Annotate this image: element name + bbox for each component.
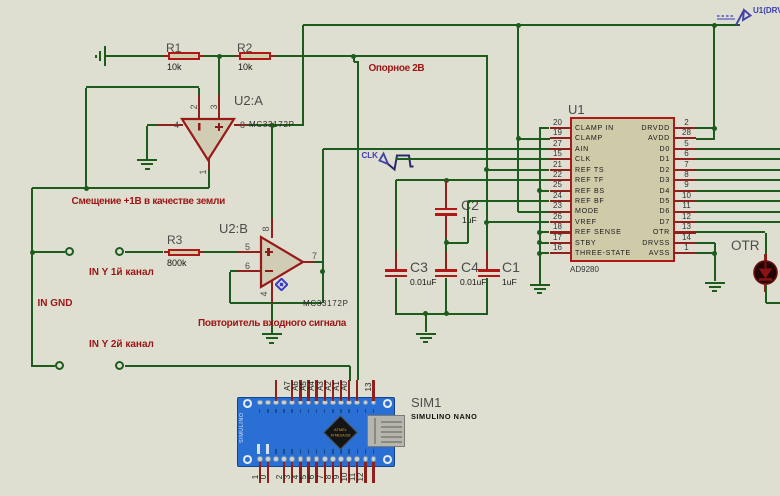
- pin stub nano bottom 11: [348, 462, 350, 483]
- pin name mark: [267, 449, 269, 454]
- pin name AVSS: [592, 249, 670, 257]
- pin label D2: [270, 468, 288, 486]
- pin 21 REF TS (left stub): [550, 169, 571, 171]
- value U2:B MC33172P: [303, 299, 349, 308]
- wire U2:A pin2 vertical green: [198, 88, 200, 108]
- terminal IN Y 2 (left circle): [55, 361, 64, 370]
- pin name REF BS: [575, 187, 605, 195]
- wire C3 top lead red: [395, 251, 397, 271]
- wire opornoe jog v: [353, 56, 355, 62]
- pin stub nano top 5: [299, 380, 301, 401]
- junction top rail / DRVDD drop: [712, 23, 717, 28]
- ground (chip right): [705, 282, 725, 284]
- pin name REF TF: [575, 176, 604, 184]
- pin name mark: [373, 409, 375, 414]
- pad (top row): [306, 400, 312, 406]
- junction rail/C4: [444, 311, 449, 316]
- junction REF BS: [537, 188, 542, 193]
- wire R1-R2: [204, 55, 236, 57]
- generator CLK (clock source): [362, 151, 378, 160]
- resistor R2 10k: [239, 52, 271, 60]
- pin name mark: [275, 449, 277, 454]
- pin 15 CLK (left stub): [550, 158, 571, 160]
- junction top rail x518: [516, 23, 521, 28]
- pin name mark: [316, 409, 318, 414]
- wire CLAMP IN to pin20: [540, 127, 550, 129]
- pin stub nano top 8: [324, 380, 326, 401]
- wire data D1: [696, 158, 780, 160]
- pin label A0: [335, 377, 353, 395]
- mounting hole: [383, 399, 392, 408]
- pin name D6: [592, 207, 670, 215]
- label OTR: [731, 238, 760, 253]
- pad (bottom row): [257, 456, 263, 462]
- pin label D8: [319, 468, 337, 486]
- wire pin4 down to ground: [146, 126, 148, 159]
- pin name STBY: [575, 239, 596, 247]
- junction feedback B: [320, 269, 325, 274]
- pin name mark: [283, 409, 285, 414]
- value C4 0.01uF: [460, 277, 486, 287]
- pin stub nano top 6: [307, 380, 309, 401]
- text SIMULINO NANO: [411, 412, 477, 421]
- pin 20 CLAMP IN (left stub): [550, 127, 571, 129]
- pin stub nano top 14: [372, 380, 374, 401]
- wire data D6: [696, 211, 780, 213]
- pin label A7: [278, 377, 296, 395]
- pin name D7: [592, 218, 670, 226]
- wire C2 bottom green: [445, 238, 447, 243]
- junction VREF: [484, 220, 489, 225]
- ground (left, rotated): [104, 46, 106, 66]
- pad (top row): [346, 400, 352, 406]
- wire DRVSS/AVSS vertical: [714, 243, 716, 282]
- MCU (black diamond): [323, 415, 358, 450]
- pin name mark: [357, 409, 359, 414]
- pin name VREF: [575, 218, 597, 226]
- wire AVDD: [696, 138, 714, 140]
- pin number 4 U2:B: [255, 285, 273, 303]
- label C4: [461, 259, 479, 275]
- junction AVSS: [712, 251, 717, 256]
- pin name MODE: [575, 207, 599, 215]
- pin stub nano bottom 14: [372, 462, 374, 483]
- pin name REF SENSE: [575, 228, 622, 236]
- pin label A6: [286, 377, 304, 395]
- wire main rail y56: [275, 55, 488, 57]
- minus mark U2:B: [265, 270, 273, 272]
- wire DRVSS: [696, 242, 715, 244]
- wire LED to edge: [766, 302, 780, 304]
- wire ground net vertical x540: [539, 127, 541, 284]
- pin 13 OTR (right stub): [674, 231, 696, 233]
- pin name mark: [316, 449, 318, 454]
- silkscreen text left edge: [239, 412, 245, 443]
- capacitor C1 1uF: [478, 269, 500, 272]
- pin 11 D6 (right stub): [674, 211, 696, 213]
- wire R3 right lead: [200, 251, 204, 253]
- wire feedback B vertical: [229, 272, 231, 304]
- USB connector: [367, 415, 405, 447]
- pin number 8 U2:B: [257, 220, 275, 238]
- terminal IN Y 1 (right circle): [115, 247, 124, 256]
- resistor R1 10k: [168, 52, 200, 60]
- pin label A1: [327, 377, 345, 395]
- pin name mark: [324, 449, 326, 454]
- pin name mark: [365, 409, 367, 414]
- wire to terminal ch1: [32, 251, 65, 253]
- wire data D4: [696, 190, 780, 192]
- module SIM1 SIMULINO NANO board: [237, 397, 395, 467]
- pad (top row): [338, 400, 344, 406]
- wire terminal to R3: [125, 251, 164, 253]
- marker (blue origin): [275, 278, 288, 291]
- wire U2:A pin3 vertical green: [218, 56, 220, 95]
- pad (bottom row): [354, 456, 360, 462]
- pin name CLK: [575, 155, 591, 163]
- capacitor C2 bottom lead: [445, 216, 447, 238]
- junction node R1/R2/pin3: [217, 54, 222, 59]
- wire down to nano A0: [349, 366, 351, 381]
- pin 22 REF TF (left stub): [550, 179, 571, 181]
- pin stub nano bottom 10: [340, 462, 342, 483]
- label R2: [237, 41, 252, 55]
- wire U2:B out vertical (AIN/feedback): [322, 149, 324, 303]
- pin name mark: [291, 449, 293, 454]
- pin 2 DRVDD (right stub): [674, 127, 696, 129]
- junction THREE-STATE: [537, 251, 542, 256]
- value R1 10k: [167, 62, 182, 72]
- pin 25 REF BS (left stub): [550, 190, 571, 192]
- wire LED bottom: [765, 285, 767, 304]
- wire C4 top green: [445, 243, 447, 252]
- silkscreen TX RX marks: [257, 444, 260, 454]
- wire +V down to U2:B pin8: [271, 126, 273, 218]
- pad (bottom row): [371, 456, 377, 462]
- pin name mark: [308, 409, 310, 414]
- pin 5 D0 (right stub): [674, 148, 696, 150]
- ground (cap rail): [416, 333, 436, 335]
- junction CLAMP: [516, 136, 521, 141]
- mounting hole: [383, 455, 392, 464]
- pin name mark: [300, 409, 302, 414]
- svg-text:ATMEL: ATMEL: [333, 427, 347, 432]
- terminal IN Y 2 (right circle): [115, 361, 124, 370]
- wire IN GND vertical: [31, 188, 33, 367]
- mounting hole: [243, 455, 252, 464]
- wire opornoe jog h: [354, 61, 359, 63]
- label U2:A: [234, 93, 263, 108]
- capacitor C1 top lead red: [486, 251, 488, 270]
- pin 6 D1 (right stub): [674, 158, 696, 160]
- label U2:B: [219, 221, 248, 236]
- junction C2 top: [444, 178, 449, 183]
- label C3: [410, 259, 428, 275]
- wire REF BF: [468, 200, 550, 202]
- pin label D10: [335, 468, 353, 486]
- wire pin6 green: [230, 270, 238, 272]
- pin 7 stub U2:B: [302, 261, 313, 263]
- pin label D11: [343, 468, 361, 486]
- pin name CLAMP IN: [575, 124, 614, 132]
- pad (bottom row): [330, 456, 336, 462]
- pad (bottom row): [298, 456, 304, 462]
- pin name mark: [259, 449, 261, 454]
- wire output bottom: [32, 187, 209, 189]
- pin stub nano bottom 1: [267, 462, 269, 483]
- pin stub nano top 7: [315, 380, 317, 401]
- pad (bottom row): [338, 456, 344, 462]
- pad (bottom row): [289, 456, 295, 462]
- label C2: [461, 197, 479, 213]
- wire C3 bottom lead: [395, 278, 397, 315]
- pin label D4: [286, 468, 304, 486]
- wire U2:A output vertical: [208, 170, 210, 188]
- junction REF TS: [484, 167, 489, 172]
- pin 4 stub U2:B: [271, 280, 273, 303]
- ground (chip left): [530, 284, 550, 286]
- pin 8 stub U2:A: [234, 124, 248, 126]
- label R1: [166, 41, 181, 55]
- pin 7 D2 (right stub): [674, 169, 696, 171]
- probe U1(DRVDD) voltage probe: [712, 4, 758, 28]
- pin 28 AVDD (right stub): [674, 137, 696, 139]
- junction op-amp supplies: [270, 123, 275, 128]
- value U1 AD9280: [570, 265, 599, 274]
- capacitor C2 top lead: [445, 181, 447, 210]
- wire C2 to REFBF riser: [446, 242, 468, 244]
- pad (top row): [322, 400, 328, 406]
- pin label A4: [302, 377, 320, 395]
- pin stub nano bottom 7: [315, 462, 317, 483]
- junction C2/C4: [444, 240, 449, 245]
- pin name D3: [592, 176, 670, 184]
- capacitor C2 1uF: [435, 208, 457, 211]
- pin name D0: [592, 145, 670, 153]
- pin name mark: [348, 409, 350, 414]
- LED OTR: [753, 260, 779, 286]
- wire R3 left lead: [164, 251, 168, 253]
- pin name D5: [592, 197, 670, 205]
- pin name mark: [332, 449, 334, 454]
- wire STBY to pin17: [540, 242, 550, 244]
- wire R2 left lead: [235, 55, 239, 57]
- pin label D3: [278, 468, 296, 486]
- pad (top row): [371, 400, 377, 406]
- pin name mark: [267, 409, 269, 414]
- mounting hole: [243, 399, 252, 408]
- pin name mark: [357, 449, 359, 454]
- pad (bottom row): [363, 456, 369, 462]
- pin stub nano bottom 6: [307, 462, 309, 483]
- pin label A3: [311, 377, 329, 395]
- wire CLK to pin15: [396, 158, 550, 160]
- capacitor C4 0.01uF: [435, 269, 457, 272]
- pin label D0: [254, 468, 272, 486]
- wire x487 vertical (REFTS/VREF/C1): [486, 56, 488, 253]
- pin stub nano bottom 3: [283, 462, 285, 483]
- pin stub nano top 2: [275, 380, 277, 401]
- pin 12 D7 (right stub): [674, 221, 696, 223]
- wire C4 bottom lead: [445, 278, 447, 315]
- pin stub nano top 11: [348, 380, 350, 401]
- pad (bottom row): [322, 456, 328, 462]
- pin number 6: [245, 261, 250, 271]
- pin number 7: [312, 251, 317, 261]
- pin number 5: [245, 242, 250, 252]
- pin name THREE-STATE: [575, 249, 631, 257]
- pin name DRVSS: [592, 239, 670, 247]
- text IN Y 1 channel: [89, 267, 154, 278]
- wire feedback B bottom: [230, 302, 323, 304]
- wire IN Y2 to nano A0: [125, 365, 350, 367]
- capacitor C3 0.01uF: [385, 269, 407, 272]
- pin 6 stub U2:B: [237, 270, 262, 272]
- pin label A2: [319, 377, 337, 395]
- wire cap bottom rail: [396, 313, 488, 315]
- wire R1 left lead: [164, 55, 168, 57]
- pin label D9: [327, 468, 345, 486]
- pin 3 stub U2:A: [218, 95, 220, 119]
- pin stub nano top 9: [332, 380, 334, 401]
- wire R2 right lead: [271, 55, 275, 57]
- junction REF SENSE: [537, 230, 542, 235]
- pin 8 D3 (right stub): [674, 179, 696, 181]
- pin name mark: [373, 449, 375, 454]
- pin name mark: [291, 409, 293, 414]
- pin 26 VREF (left stub): [550, 221, 571, 223]
- LED cathode lead: [764, 284, 766, 292]
- pin name OTR: [592, 228, 670, 236]
- plus mark U2:A: [215, 126, 223, 128]
- wire AVDD/DRVDD vertical: [713, 25, 715, 140]
- pin 1 stub U2:A: [208, 158, 210, 170]
- pad (top row): [314, 400, 320, 406]
- pad (top row): [354, 400, 360, 406]
- wire opornoe long vertical: [357, 62, 359, 380]
- text follower annotation: [198, 318, 346, 329]
- pin 23 MODE (left stub): [550, 211, 571, 213]
- pad (bottom row): [314, 456, 320, 462]
- wire vertical x302 to opamp pin8: [302, 25, 304, 126]
- pin 16 THREE-STATE (left stub): [550, 252, 571, 254]
- plus mark U2:B: [265, 251, 273, 253]
- value U2:A MC33172P: [249, 120, 295, 129]
- wire data D7: [696, 221, 780, 223]
- wire AVSS: [696, 252, 715, 254]
- pin 19 CLAMP (left stub): [550, 137, 571, 139]
- wire feedback left vertical: [85, 88, 87, 189]
- LED anode lead: [764, 254, 766, 262]
- pin label A5: [294, 377, 312, 395]
- junction DRVDD: [712, 126, 717, 131]
- value C1 1uF: [502, 277, 517, 287]
- pin number 8: [240, 120, 245, 130]
- pin name mark: [300, 449, 302, 454]
- pin name CLAMP: [575, 134, 603, 142]
- wire pin4B to ground: [271, 303, 273, 333]
- wire AIN: [323, 148, 550, 150]
- IC U1 AD9280 body: [570, 117, 675, 262]
- wire R1 right lead: [200, 55, 204, 57]
- wire OTR: [696, 231, 766, 233]
- pin stub nano top 12: [356, 380, 358, 401]
- value R3 800k: [167, 258, 187, 268]
- wire REF TF: [396, 179, 550, 181]
- wire IN GND to terminal ch2a: [32, 365, 55, 367]
- wire data D2: [696, 169, 780, 171]
- label C1: [502, 259, 520, 275]
- pin 4 stub U2:A: [158, 124, 183, 126]
- capacitor C4 top lead: [445, 252, 447, 271]
- wire rail ground stem: [425, 314, 427, 332]
- wire VREF to pin26: [487, 221, 550, 223]
- pin name AIN: [575, 145, 589, 153]
- wire data D3: [696, 179, 780, 181]
- op-amp U2:A (pointing down): [180, 117, 236, 163]
- pin name AVDD: [592, 134, 670, 142]
- pad (top row): [289, 400, 295, 406]
- wire DRVDD: [696, 127, 714, 129]
- pin number 2: [185, 98, 203, 116]
- wire output B green: [313, 261, 323, 263]
- pin name D4: [592, 187, 670, 195]
- wire REF BF riser: [467, 201, 469, 243]
- wire REF TS to pin21: [487, 169, 550, 171]
- wire AVDD vertical x518: [517, 25, 519, 212]
- pin label D12: [351, 468, 369, 486]
- pin name mark: [324, 409, 326, 414]
- wire REF SENSE to pin18: [540, 231, 550, 233]
- pin 9 D4 (right stub): [674, 190, 696, 192]
- pin stub nano bottom 8: [324, 462, 326, 483]
- value C2 1uF: [462, 215, 477, 225]
- pad (bottom row): [346, 456, 352, 462]
- label SIM1: [411, 395, 441, 410]
- wire REF BS to pin25: [540, 190, 550, 192]
- pin 10 D5 (right stub): [674, 200, 696, 202]
- pin 17 STBY (left stub): [550, 242, 571, 244]
- pin 1 AVSS (right stub): [674, 252, 696, 254]
- text IN GND: [38, 298, 73, 309]
- wire OTR to LED: [765, 233, 767, 262]
- pad (bottom row): [306, 456, 312, 462]
- ground (U2:A pin 4): [137, 159, 157, 161]
- junction IN GND / ch1: [30, 250, 35, 255]
- wire data D5: [696, 200, 780, 202]
- wire feedback top: [86, 86, 199, 88]
- pin number 1: [194, 163, 212, 181]
- pin stub nano bottom 12: [356, 462, 358, 483]
- pin 5 stub U2:B: [237, 251, 262, 253]
- pad (top row): [330, 400, 336, 406]
- pin name mark: [275, 409, 277, 414]
- pad (top row): [257, 400, 263, 406]
- svg-text:ATMEGA328: ATMEGA328: [330, 433, 350, 437]
- junction STBY: [537, 240, 542, 245]
- junction feedback/output: [84, 186, 89, 191]
- wire pin8 to +V vertical: [248, 124, 304, 126]
- pin label D1: [246, 468, 264, 486]
- pin stub nano bottom 13: [364, 462, 366, 483]
- pin 8 stub U2:B: [271, 218, 273, 238]
- pin name mark: [340, 409, 342, 414]
- pad (top row): [273, 400, 279, 406]
- pin 18 REF SENSE (left stub): [550, 231, 571, 233]
- pin name mark: [340, 449, 342, 454]
- pin stub nano bottom 9: [332, 462, 334, 483]
- wire THREE-STATE to pin16: [540, 252, 550, 254]
